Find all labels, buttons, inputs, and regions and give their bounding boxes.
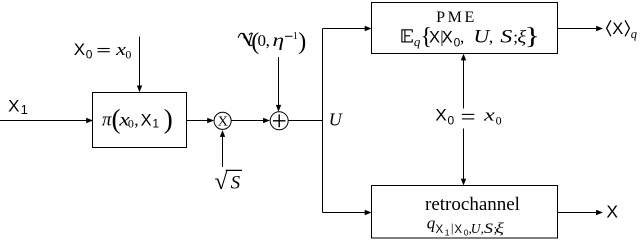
svg-text:X: X	[454, 224, 462, 236]
block pi(x0,X1)	[93, 93, 187, 148]
double-struck E	[401, 30, 412, 42]
svg-text:0: 0	[125, 48, 131, 62]
svg-text:0: 0	[86, 48, 93, 62]
wire adder to junction U	[288, 120, 323, 122]
svg-text:X: X	[429, 28, 440, 46]
multiplier node (x)	[214, 112, 231, 129]
svg-text:,: ,	[460, 27, 464, 46]
svg-text:retrochannel: retrochannel	[425, 194, 520, 215]
svg-text:,: ,	[134, 110, 138, 129]
wire retrochannel output	[558, 210, 603, 215]
svg-text:X: X	[436, 224, 444, 236]
svg-text:X: X	[612, 20, 623, 38]
node X1 label	[8, 96, 28, 117]
wire PME output	[558, 26, 604, 31]
svg-text:η: η	[272, 30, 284, 51]
svg-text:|: |	[451, 220, 454, 235]
svg-text:X: X	[606, 202, 618, 222]
wire junction to retrochannel	[323, 210, 372, 215]
svg-text:X: X	[218, 115, 228, 130]
wire pi to multiplier	[187, 118, 215, 123]
svg-text:1: 1	[445, 228, 450, 238]
svg-text:X: X	[141, 111, 152, 129]
wire noise into adder	[276, 57, 281, 112]
adder node (+)	[270, 112, 288, 130]
svg-text:1: 1	[21, 102, 28, 117]
svg-text:X: X	[8, 96, 19, 115]
wire junction vertical	[322, 29, 324, 213]
node X output label	[606, 202, 618, 222]
wire X0=x0 into pi block	[137, 37, 142, 93]
wire X1 input	[0, 118, 93, 123]
svg-text:0: 0	[448, 113, 455, 127]
node N(0, eta^-1) label	[238, 29, 306, 55]
block PME	[372, 3, 558, 54]
svg-text:q: q	[631, 27, 637, 41]
block retrochannel	[372, 186, 558, 239]
svg-text:PME: PME	[436, 9, 477, 26]
svg-text:0: 0	[128, 117, 134, 131]
node <X>q output label	[607, 20, 637, 41]
svg-text:0: 0	[496, 113, 502, 127]
node U label	[329, 109, 343, 129]
svg-text:S: S	[231, 173, 241, 194]
svg-text:}: }	[524, 24, 540, 50]
svg-text:√: √	[215, 169, 229, 195]
node X0 = x0 label (middle)	[435, 106, 501, 128]
svg-text:S: S	[500, 26, 512, 47]
svg-text:): )	[298, 29, 306, 55]
svg-text:x: x	[483, 107, 496, 125]
wire junction to PME	[323, 26, 372, 31]
svg-text:,: ,	[489, 27, 493, 46]
svg-text:ξ: ξ	[495, 220, 504, 237]
svg-text:U: U	[329, 109, 343, 129]
svg-text:,: ,	[266, 31, 270, 50]
svg-text:X: X	[435, 106, 446, 125]
svg-text:1: 1	[293, 31, 298, 42]
svg-text:π: π	[102, 109, 112, 130]
wire multiplier to adder	[231, 118, 270, 123]
node X0 = x0 label (top)	[74, 40, 132, 62]
svg-text:q: q	[427, 214, 436, 233]
svg-text:1: 1	[152, 117, 159, 131]
wire sqrt(S) into multiplier	[220, 130, 225, 167]
wire X0=x0 between PME and retrochannel (double arrow)	[461, 54, 466, 186]
svg-text:X: X	[442, 28, 453, 46]
node sqrt(S) label	[215, 169, 243, 195]
svg-text:): )	[164, 104, 173, 134]
svg-text:X: X	[74, 40, 85, 59]
svg-text:S: S	[484, 219, 493, 236]
